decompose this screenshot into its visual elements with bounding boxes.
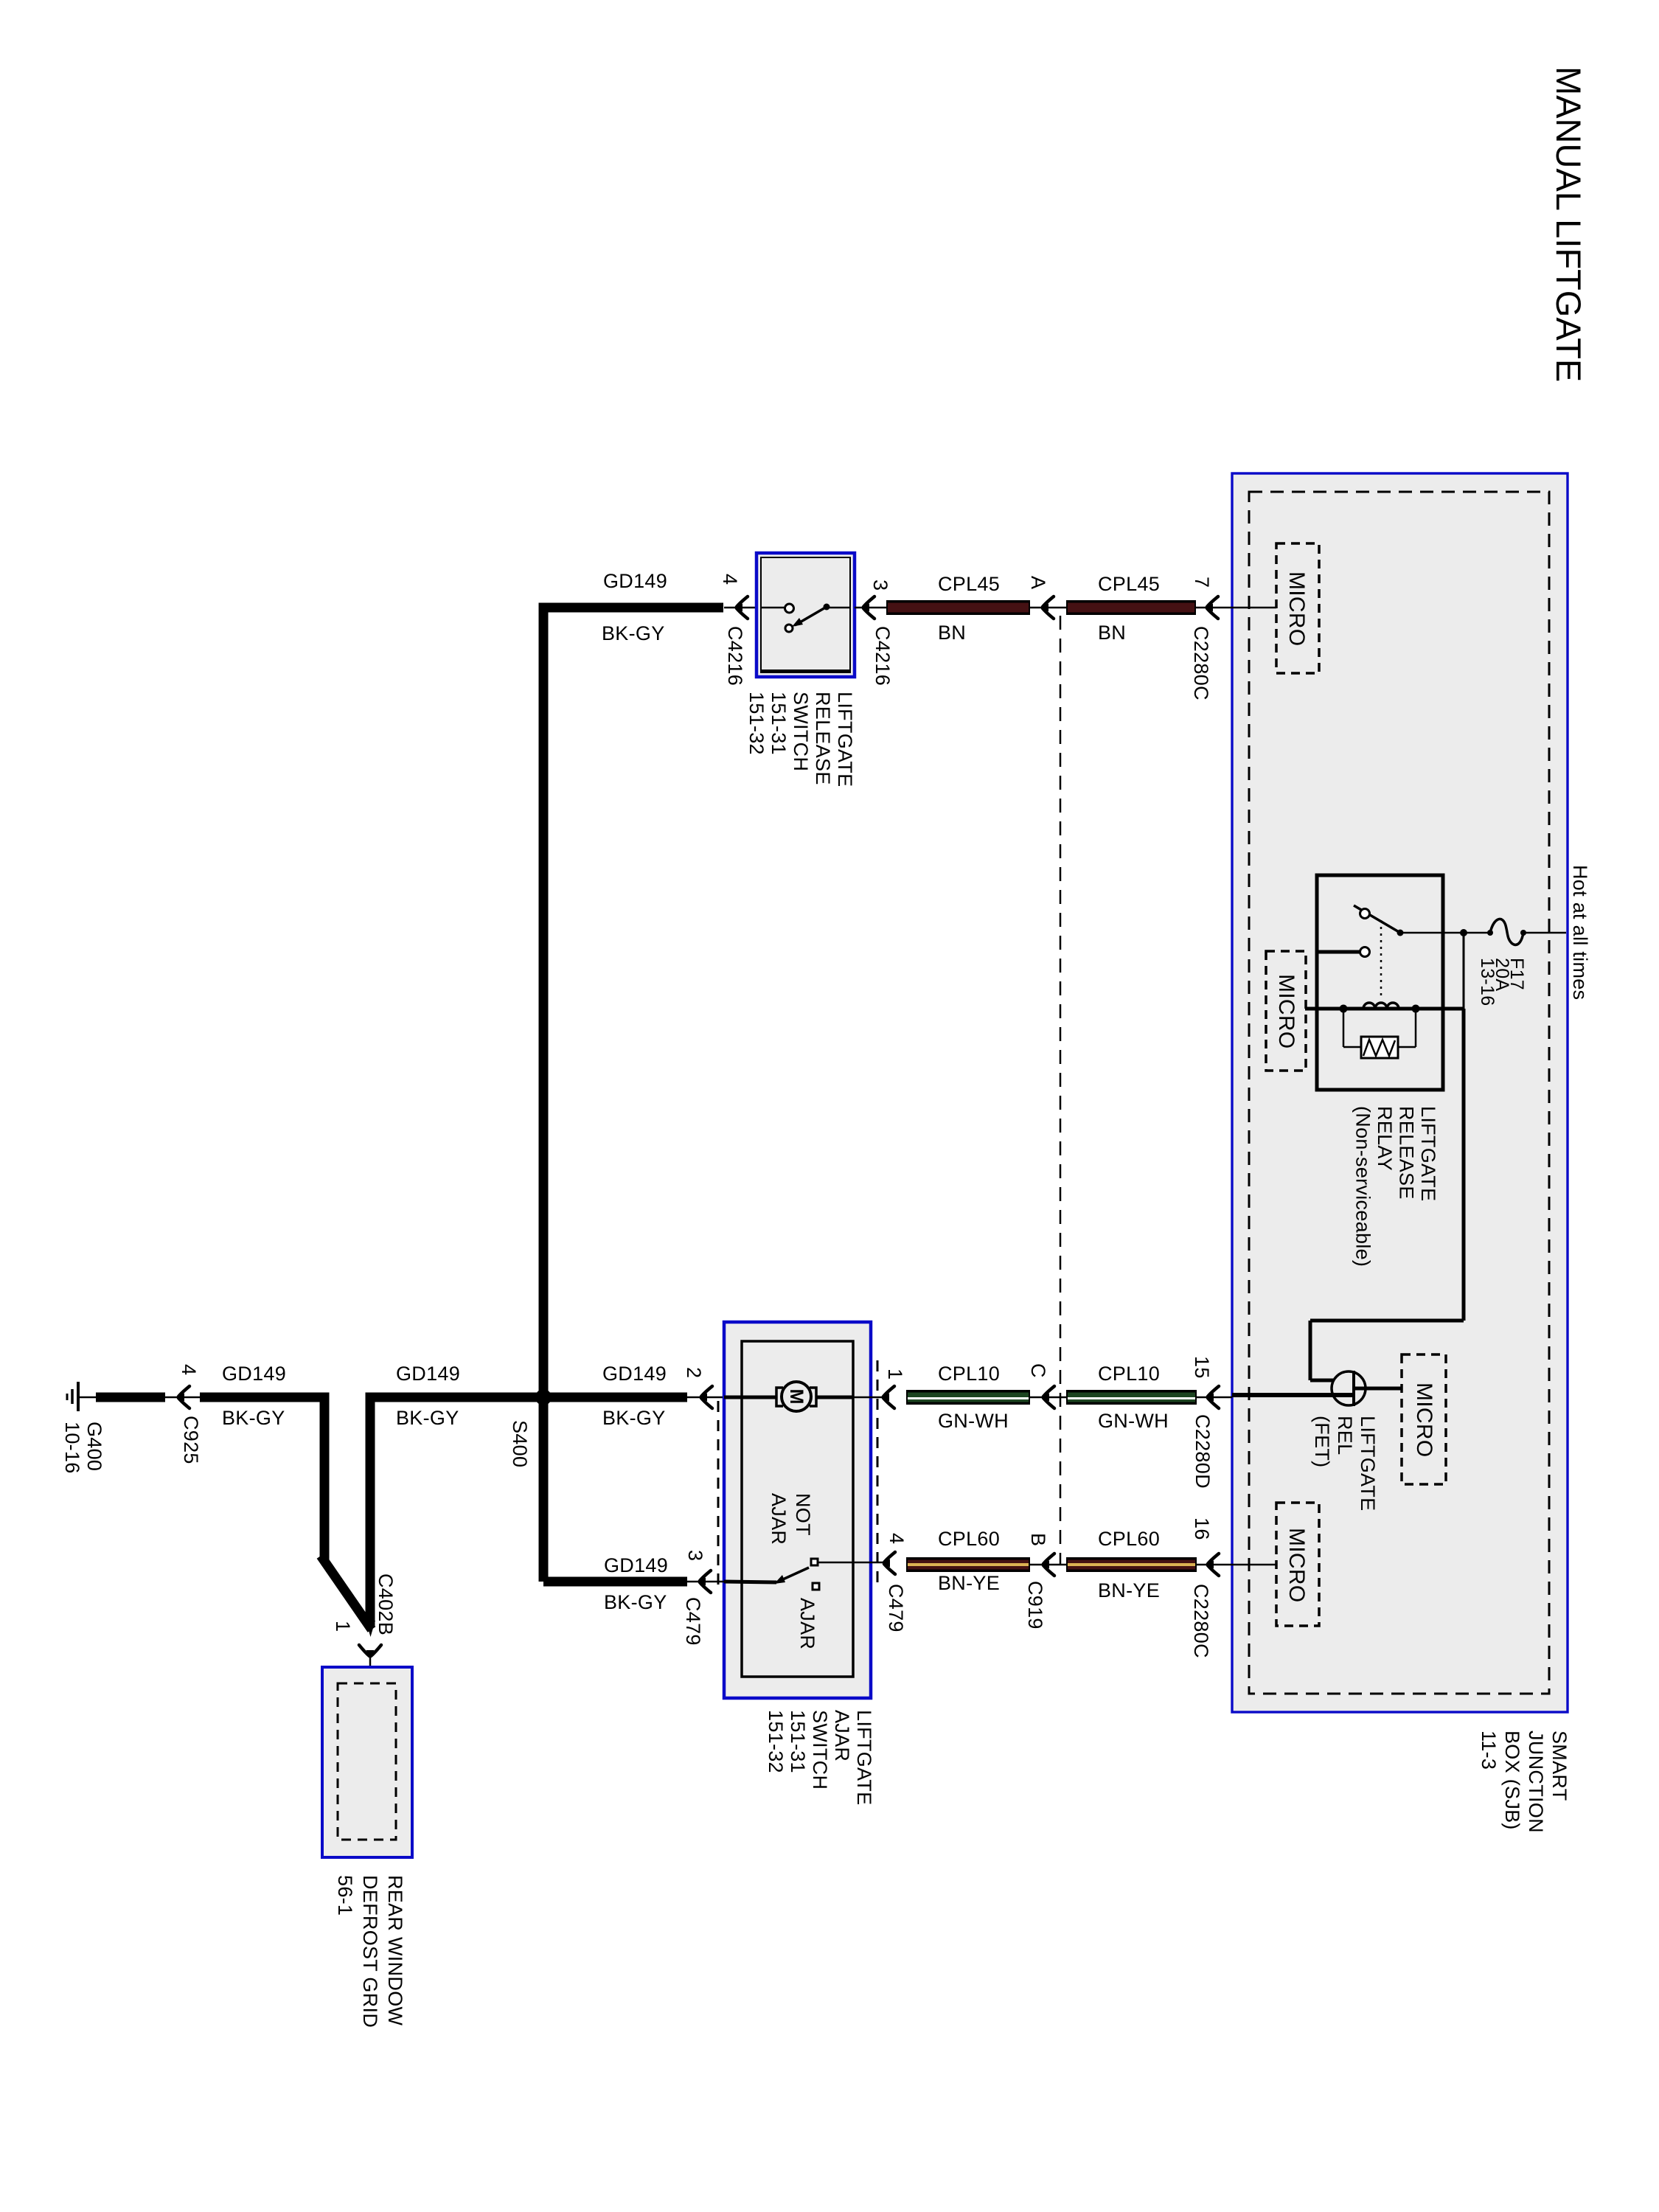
svg-text:BN-YE: BN-YE — [938, 1572, 1000, 1594]
svg-text:LIFTGATE: LIFTGATE — [834, 692, 856, 787]
smart junction box SJB outline — [1232, 473, 1568, 1712]
junction B label — [1027, 1533, 1049, 1546]
connector C4216 right label — [872, 626, 894, 686]
svg-text:C479: C479 — [682, 1597, 704, 1646]
svg-text:BK-GY: BK-GY — [602, 1407, 666, 1429]
svg-text:AJAR: AJAR — [768, 1493, 790, 1545]
release switch contact upper — [785, 604, 794, 613]
svg-text:7: 7 — [1191, 577, 1213, 588]
ajar switch inner box — [742, 1341, 853, 1677]
wire pin15 to FET — [1232, 1393, 1336, 1397]
svg-text:B: B — [1027, 1533, 1049, 1546]
svg-text:SMART: SMART — [1548, 1731, 1571, 1801]
label F17 20A 13-16 — [1477, 958, 1527, 1006]
svg-text:GD149: GD149 — [222, 1363, 286, 1385]
svg-text:M: M — [786, 1389, 807, 1405]
svg-text:1: 1 — [332, 1621, 354, 1632]
svg-text:MICRO: MICRO — [1412, 1382, 1436, 1458]
liftgate release switch box — [757, 553, 855, 677]
liftgate release switch label — [745, 692, 856, 787]
svg-text:(FET): (FET) — [1311, 1416, 1333, 1467]
svg-text:MICRO: MICRO — [1284, 571, 1309, 647]
MICRO text 2 — [1274, 974, 1298, 1049]
MICRO text 3 — [1412, 1382, 1436, 1458]
label CPL10 seg2 — [1098, 1363, 1160, 1385]
FET gate lead — [1355, 1387, 1402, 1391]
liftgate ajar switch box — [724, 1322, 871, 1698]
wire CPL45 BN segment 1 — [886, 600, 1030, 615]
svg-text:BOX (SJB): BOX (SJB) — [1501, 1731, 1523, 1830]
svg-text:C4216: C4216 — [724, 626, 746, 686]
svg-text:BK-GY: BK-GY — [222, 1407, 285, 1429]
svg-text:C4216: C4216 — [872, 626, 894, 686]
pin 4 label ajar — [886, 1533, 908, 1544]
pin 3 arrow — [855, 597, 886, 619]
liftgate release relay box — [1317, 875, 1443, 1090]
svg-text:BK-GY: BK-GY — [396, 1407, 459, 1429]
relay contact lower — [1360, 947, 1370, 957]
release switch contact lower — [785, 625, 793, 632]
pin 16 label — [1191, 1517, 1213, 1540]
connector C402B arrow down — [359, 1645, 381, 1658]
svg-text:10-16: 10-16 — [61, 1422, 83, 1474]
svg-text:4: 4 — [886, 1533, 908, 1544]
inline connector dashed line C919 — [1060, 616, 1062, 1565]
pin 7 arrow — [1196, 597, 1276, 619]
relay actuation dotted line — [1380, 920, 1382, 1000]
svg-text:A: A — [1027, 576, 1049, 589]
wire coil output down — [1462, 1009, 1466, 1321]
svg-text:3: 3 — [869, 580, 891, 591]
label NOT AJAR — [768, 1493, 814, 1545]
pin 15 label — [1191, 1356, 1213, 1379]
ground label G400 10-16 — [61, 1422, 105, 1474]
pin 3 label — [869, 580, 891, 591]
pin 4 label — [719, 574, 741, 585]
resistor link right — [1398, 1009, 1416, 1047]
label BN-YE seg1 — [938, 1572, 1000, 1594]
wire GD149 row2 seg3 — [543, 1393, 687, 1402]
svg-text:BK-GY: BK-GY — [602, 622, 665, 644]
svg-text:REAR WINDOW: REAR WINDOW — [384, 1875, 406, 2026]
resistor link left — [1343, 1009, 1361, 1047]
release switch wire stub right — [827, 607, 850, 609]
svg-text:AJAR: AJAR — [831, 1710, 853, 1761]
wire relay L vertical — [1309, 1321, 1312, 1380]
wire GD149 row3 left — [543, 1577, 687, 1587]
svg-text:C402B: C402B — [375, 1573, 397, 1635]
motor M letter — [786, 1389, 807, 1405]
wire into motor left — [724, 1396, 776, 1399]
label CPL45 seg1 — [938, 573, 1000, 595]
svg-text:LIFTGATE: LIFTGATE — [1417, 1106, 1439, 1201]
wire CPL60 BN-YE segment 1 — [906, 1557, 1030, 1572]
release switch wire stub left — [761, 607, 785, 609]
wire ajar contact to pin4 — [818, 1562, 883, 1564]
connector dashed line left of ajar box — [717, 1401, 720, 1585]
MICRO box 1 — [1276, 543, 1319, 673]
pin 3 label ajar — [684, 1550, 706, 1561]
svg-text:MICRO: MICRO — [1284, 1528, 1309, 1603]
wire CPL45 BN segment 2 — [1066, 600, 1196, 615]
wire GD149 row2 seg2 — [370, 1393, 543, 1628]
svg-text:GN-WH: GN-WH — [938, 1410, 1009, 1432]
label BK-GY row1 — [602, 622, 665, 644]
coil junction dot left — [1340, 1005, 1348, 1013]
svg-text:NOT: NOT — [792, 1493, 814, 1536]
svg-text:3: 3 — [684, 1550, 706, 1561]
connector C2280C top label — [1190, 626, 1212, 700]
connector C402B label — [375, 1573, 397, 1635]
pin 2 arrow — [687, 1386, 724, 1408]
relay switch arm — [1354, 905, 1404, 936]
label BK-GY row2c — [602, 1407, 666, 1429]
svg-text:LIFTGATE: LIFTGATE — [1357, 1416, 1379, 1511]
label CPL60 seg2 — [1098, 1528, 1160, 1550]
MICRO box 2 — [1266, 951, 1306, 1071]
connector C479 left label — [682, 1597, 704, 1646]
ajar switch arm — [774, 1568, 809, 1584]
ajar contact upper — [811, 1559, 818, 1565]
connector C919 label — [1024, 1581, 1046, 1630]
junction B arrow — [1030, 1554, 1066, 1576]
svg-text:G400: G400 — [83, 1422, 105, 1471]
wire GD149 S400 down — [539, 1397, 549, 1582]
wire into FET top — [1310, 1379, 1333, 1382]
svg-text:GD149: GD149 — [604, 1554, 668, 1576]
label BN-YE seg2 — [1098, 1579, 1160, 1601]
MICRO box 4 — [1276, 1503, 1319, 1626]
ajar contact lower — [813, 1583, 819, 1590]
svg-text:2: 2 — [683, 1367, 705, 1378]
svg-text:GD149: GD149 — [396, 1363, 460, 1385]
wire GD149 V tip — [366, 1621, 375, 1637]
junction C arrow — [1030, 1386, 1066, 1408]
svg-text:CPL10: CPL10 — [1098, 1363, 1160, 1385]
SJB label — [1478, 1731, 1571, 1833]
svg-text:151-31: 151-31 — [787, 1710, 809, 1773]
svg-text:BN: BN — [938, 622, 966, 644]
rear window defrost grid label — [334, 1875, 406, 2028]
svg-text:C2280D: C2280D — [1192, 1414, 1214, 1489]
svg-text:(Non-serviceable): (Non-serviceable) — [1352, 1106, 1374, 1267]
wire GD149 diagonal — [321, 1556, 372, 1630]
svg-text:LIFTGATE: LIFTGATE — [853, 1710, 875, 1805]
label BK-GY row2a — [222, 1407, 285, 1429]
liftgate rel FET label — [1311, 1416, 1379, 1511]
pin 4 connector C4216 arrow — [724, 597, 757, 619]
defrost grid inner dashed box — [338, 1683, 396, 1840]
svg-text:C919: C919 — [1024, 1581, 1046, 1630]
wire relay L horizontal — [1310, 1319, 1464, 1323]
label Hot at all times — [1569, 865, 1591, 1000]
pin 2 label — [683, 1367, 705, 1378]
pin 3 arrow ajar — [687, 1571, 724, 1593]
wire motor right — [816, 1396, 883, 1399]
motor M1 brushes — [776, 1388, 816, 1406]
label BN seg1 — [938, 622, 966, 644]
svg-text:CPL10: CPL10 — [938, 1363, 1000, 1385]
pin 16 arrow — [1197, 1554, 1276, 1576]
coil junction dot right — [1412, 1005, 1420, 1013]
wire GD149 row1 thick — [543, 603, 723, 613]
label BK-GY row2b — [396, 1407, 459, 1429]
title MANUAL LIFTGATE — [1549, 66, 1588, 382]
connector C2280D label — [1192, 1414, 1214, 1489]
connector dashed line right of ajar box — [877, 1360, 879, 1590]
connector C479 right label — [885, 1584, 907, 1632]
svg-text:DEFROST GRID: DEFROST GRID — [359, 1875, 381, 2028]
svg-text:11-3: 11-3 — [1478, 1731, 1500, 1770]
svg-text:C2280C: C2280C — [1190, 1584, 1212, 1658]
wire fuse to hot feed — [1523, 932, 1566, 934]
MICRO text 1 — [1284, 571, 1309, 647]
svg-text:SWITCH: SWITCH — [809, 1710, 831, 1790]
svg-text:CPL60: CPL60 — [938, 1528, 1000, 1550]
svg-text:CPL60: CPL60 — [1098, 1528, 1160, 1550]
junction A arrow — [1030, 597, 1066, 619]
svg-text:AJAR: AJAR — [796, 1598, 818, 1649]
splice S400 label — [509, 1420, 531, 1467]
svg-text:REL: REL — [1334, 1416, 1356, 1455]
MICRO text 4 — [1284, 1528, 1309, 1603]
svg-text:CPL45: CPL45 — [938, 573, 1000, 595]
resistor R1 box — [1361, 1037, 1398, 1058]
wire switch to coil vertical — [1463, 933, 1465, 1009]
svg-text:C925: C925 — [180, 1416, 202, 1464]
label GD149 row2a — [222, 1363, 286, 1385]
label GD149 row1 — [603, 570, 667, 592]
pin 15 arrow — [1197, 1386, 1232, 1408]
wire CPL10 GN-WH segment 1 — [906, 1390, 1030, 1405]
svg-text:GN-WH: GN-WH — [1098, 1410, 1169, 1432]
label CPL60 seg1 — [938, 1528, 1000, 1550]
junction dot at fuse branch — [1460, 929, 1467, 936]
pin 4 label C925 — [178, 1364, 200, 1375]
svg-text:151-32: 151-32 — [745, 692, 768, 755]
wire GD149 vertical drop left — [320, 1393, 330, 1562]
ground G400 symbol — [67, 1382, 78, 1411]
svg-text:MANUAL LIFTGATE: MANUAL LIFTGATE — [1549, 66, 1588, 382]
svg-text:C2280C: C2280C — [1190, 626, 1212, 700]
pin 1 label C402B — [332, 1621, 354, 1632]
svg-text:CPL45: CPL45 — [1098, 573, 1160, 595]
label CPL10 seg1 — [938, 1363, 1000, 1385]
svg-text:151-32: 151-32 — [765, 1710, 787, 1773]
pin 4 arrow ajar — [883, 1552, 895, 1574]
pin 7 label — [1191, 577, 1213, 588]
svg-text:MICRO: MICRO — [1274, 974, 1298, 1049]
svg-text:SWITCH: SWITCH — [790, 692, 812, 771]
resistor R1 zigzag — [1363, 1040, 1395, 1056]
liftgate ajar switch label — [765, 1710, 875, 1805]
connector C4216 left label — [724, 626, 746, 686]
svg-text:C: C — [1027, 1363, 1049, 1378]
label GD149 row3 — [604, 1554, 668, 1576]
svg-text:56-1: 56-1 — [334, 1875, 356, 1916]
label GD149 row2b — [396, 1363, 460, 1385]
relay contact upper — [1360, 909, 1370, 919]
label GD149 row2c — [602, 1363, 667, 1385]
splice S400 dot — [535, 1389, 552, 1405]
svg-text:BN-YE: BN-YE — [1098, 1579, 1160, 1601]
MICRO box 3 — [1402, 1354, 1446, 1484]
wire CPL60 BN-YE segment 2 — [1066, 1557, 1197, 1572]
SJB inner dashed boundary — [1249, 492, 1549, 1694]
wire GD149 row2 seg1 — [200, 1393, 324, 1402]
connector C925 arrow — [165, 1386, 200, 1408]
label BN seg2 — [1098, 622, 1126, 644]
svg-text:4: 4 — [719, 574, 741, 585]
svg-text:GD149: GD149 — [602, 1363, 667, 1385]
relay coil wire — [1305, 1007, 1464, 1011]
release switch pivot dot — [824, 604, 830, 611]
junction C label — [1027, 1363, 1049, 1378]
junction A label — [1027, 576, 1049, 589]
pin 1 label — [884, 1368, 906, 1380]
svg-text:RELAY: RELAY — [1374, 1106, 1396, 1171]
svg-text:13-16: 13-16 — [1477, 958, 1498, 1006]
liftgate release relay label — [1352, 1106, 1440, 1267]
wire to defrost grid — [369, 1657, 372, 1686]
wire into ajar switch — [724, 1582, 776, 1582]
rear window defrost grid box — [322, 1667, 412, 1857]
motor M1 circle — [782, 1382, 811, 1411]
svg-text:4: 4 — [178, 1364, 200, 1375]
pin 1 arrow — [882, 1386, 894, 1408]
wire GD149 to C925 — [96, 1393, 165, 1402]
label BK-GY row3 — [604, 1591, 667, 1613]
fuse F17 symbol — [1487, 919, 1526, 945]
release switch arm — [792, 607, 827, 627]
connector C2280C bottom label — [1190, 1584, 1212, 1658]
label GN-WH seg1 — [938, 1410, 1009, 1432]
svg-text:BK-GY: BK-GY — [604, 1591, 667, 1613]
FET circle liftgate rel — [1332, 1371, 1366, 1406]
svg-text:16: 16 — [1191, 1517, 1213, 1540]
svg-text:JUNCTION: JUNCTION — [1525, 1731, 1547, 1833]
svg-text:15: 15 — [1191, 1356, 1213, 1379]
svg-text:Hot at all times: Hot at all times — [1569, 865, 1591, 1000]
relay coil — [1363, 1003, 1399, 1009]
relay contact lower wire — [1317, 950, 1360, 954]
label GN-WH seg2 — [1098, 1410, 1169, 1432]
svg-text:GD149: GD149 — [603, 570, 667, 592]
svg-text:BN: BN — [1098, 622, 1126, 644]
connector C925 label — [180, 1416, 202, 1464]
wire vertical GD149 left drop — [539, 603, 549, 1398]
svg-text:RELEASE: RELEASE — [1396, 1106, 1418, 1200]
svg-text:S400: S400 — [509, 1420, 531, 1467]
wire CPL10 GN-WH segment 2 — [1066, 1390, 1197, 1405]
svg-text:C479: C479 — [885, 1584, 907, 1632]
label AJAR — [796, 1598, 818, 1649]
wire ground stub — [78, 1397, 96, 1399]
label CPL45 seg2 — [1098, 573, 1160, 595]
wire relay common to fuse — [1400, 932, 1488, 934]
svg-text:1: 1 — [884, 1368, 906, 1380]
svg-text:151-31: 151-31 — [768, 692, 790, 755]
svg-text:RELEASE: RELEASE — [812, 692, 834, 785]
